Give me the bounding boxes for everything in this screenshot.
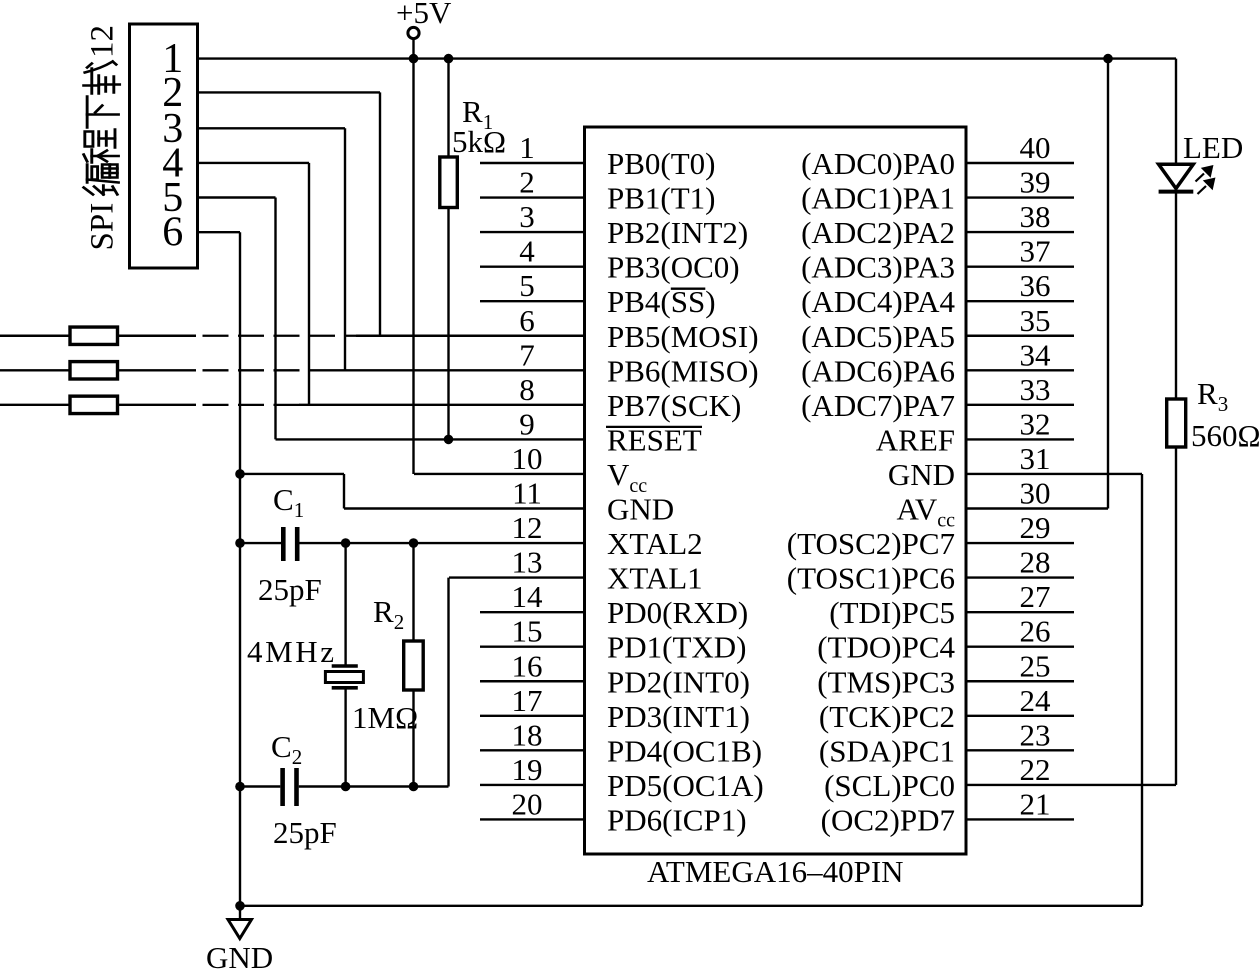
pin 30 AVcc (896, 476, 1108, 532)
pin 9 RESET (276, 406, 703, 457)
svg-text:LED: LED (1183, 130, 1243, 165)
pin 15 PD1(TXD) (480, 614, 747, 665)
svg-text:560Ω: 560Ω (1191, 418, 1260, 453)
junction C2 row / R2 (409, 782, 419, 792)
svg-text:(ADC2)PA2: (ADC2)PA2 (801, 215, 955, 250)
junction on rail at R1 (444, 54, 454, 64)
capacitor C2 (240, 768, 449, 806)
pin 34 (ADC6)PA6 (801, 337, 1074, 388)
svg-text:6: 6 (162, 210, 183, 256)
svg-text:PD3(INT1): PD3(INT1) (607, 699, 750, 734)
pin 17 PD3(INT1) (480, 683, 750, 734)
svg-text:(ADC5)PA5: (ADC5)PA5 (801, 319, 955, 354)
resistor R1 (440, 59, 458, 440)
pin 26 (TDO)PC4 (817, 614, 1074, 665)
svg-text:(TOSC1)PC6: (TOSC1)PC6 (787, 561, 955, 596)
svg-text:SPI: SPI (85, 203, 121, 251)
pin 31 GND (888, 441, 1142, 492)
pin 32 AREF (876, 406, 1074, 457)
wire GND pin11 jog to bus (240, 474, 344, 509)
label GND (206, 940, 273, 970)
svg-text:PB5(MOSI): PB5(MOSI) (607, 319, 759, 354)
pin 20 PD6(ICP1) (480, 786, 747, 837)
capacitor C1 (240, 527, 585, 561)
label C1 (273, 482, 304, 522)
pin 11 GND (344, 476, 674, 527)
svg-text:12: 12 (512, 510, 543, 545)
pin 12 XTAL2 (512, 510, 703, 561)
svg-text:PB0(T0): PB0(T0) (607, 146, 716, 181)
svg-text:(TOSC2)PC7: (TOSC2)PC7 (787, 526, 955, 561)
pin 7 PB6(MISO) (335, 337, 759, 388)
junction C1 row / gnd bus (235, 538, 245, 548)
svg-text:28: 28 (1020, 545, 1051, 580)
svg-text:18: 18 (512, 717, 543, 752)
resistor R3 (1167, 399, 1186, 785)
wire dashed signal 2 (196, 369, 337, 371)
pin 13 XTAL1 (449, 545, 703, 596)
svg-text:XTAL1: XTAL1 (607, 561, 703, 596)
wire AVcc pin30 riser to rail (1107, 59, 1109, 509)
pin 10 Vcc (414, 441, 647, 497)
svg-text:(ADC4)PA4: (ADC4)PA4 (801, 284, 955, 319)
svg-text:PB6(MISO): PB6(MISO) (607, 353, 759, 388)
svg-text:27: 27 (1020, 579, 1051, 614)
svg-text:39: 39 (1020, 165, 1051, 200)
svg-text:10: 10 (512, 441, 543, 476)
svg-text:ATMEGA16–40PIN: ATMEGA16–40PIN (647, 854, 904, 889)
svg-text:9: 9 (519, 406, 535, 441)
svg-text:PD6(ICP1): PD6(ICP1) (607, 802, 747, 837)
svg-text:(ADC1)PA1: (ADC1)PA1 (801, 181, 955, 216)
svg-text:1MΩ: 1MΩ (352, 700, 418, 735)
pin 36 (ADC4)PA4 (801, 268, 1074, 319)
svg-text:17: 17 (512, 683, 543, 718)
svg-text:GND: GND (888, 457, 955, 492)
wire SPI pin 2 to IC (198, 92, 381, 335)
svg-text:PB2(INT2): PB2(INT2) (607, 215, 748, 250)
svg-text:20: 20 (512, 786, 543, 821)
pin 39 (ADC1)PA1 (801, 165, 1074, 216)
LED D1 (1159, 59, 1194, 399)
svg-text:5: 5 (519, 268, 535, 303)
wire XTAL1 pin13 branch down (447, 578, 449, 787)
label 5kOhm (452, 124, 506, 159)
svg-text:PD4(OC1B): PD4(OC1B) (607, 733, 762, 768)
svg-text:(ADC3)PA3: (ADC3)PA3 (801, 250, 955, 285)
label 560Ohm (1191, 418, 1260, 453)
wire dashed signal 1 (196, 335, 358, 337)
svg-text:25pF: 25pF (258, 572, 322, 607)
pin 23 (SDA)PC1 (819, 717, 1074, 768)
pin 33 (ADC7)PA7 (801, 372, 1074, 423)
svg-text:36: 36 (1020, 268, 1051, 303)
svg-text:(SDA)PC1: (SDA)PC1 (819, 733, 955, 768)
svg-text:40: 40 (1020, 130, 1051, 165)
connector J1 SPI programming header (130, 24, 198, 268)
pin 5 PB4(SS) (480, 268, 716, 319)
svg-text:12: 12 (85, 25, 121, 58)
LED emission arrows (1196, 167, 1215, 195)
svg-text:4MHz: 4MHz (247, 634, 337, 669)
svg-text:PB7(SCK): PB7(SCK) (607, 388, 741, 423)
pin 40 (ADC0)PA0 (801, 130, 1074, 181)
wire Vcc pin10 riser (412, 59, 414, 474)
junction on rail at Vcc drop (409, 54, 419, 64)
pin 8 PB7(SCK) (299, 372, 741, 423)
svg-text:38: 38 (1020, 199, 1051, 234)
svg-text:(SCL)PC0: (SCL)PC0 (824, 768, 955, 803)
svg-text:11: 11 (512, 476, 542, 511)
svg-text:4: 4 (519, 234, 535, 269)
svg-text:(ADC0)PA0: (ADC0)PA0 (801, 146, 955, 181)
svg-text:(TCK)PC2: (TCK)PC2 (819, 699, 955, 734)
pin 21 (OC2)PD7 (821, 786, 1074, 837)
svg-text:37: 37 (1020, 234, 1051, 269)
svg-text:1: 1 (519, 130, 535, 165)
svg-text:3: 3 (519, 199, 535, 234)
pin 29 (TOSC2)PC7 (787, 510, 1074, 561)
label C2 25pF (273, 815, 337, 850)
pin 18 PD4(OC1B) (480, 717, 762, 768)
svg-text:22: 22 (1020, 752, 1051, 787)
crystal Y1 4MHz (325, 543, 363, 786)
pin 22 (SCL)PC0 (824, 752, 1176, 803)
label C2 (271, 729, 302, 769)
pin 16 PD2(INT0) (480, 648, 750, 699)
svg-text:5kΩ: 5kΩ (452, 124, 506, 159)
svg-text:24: 24 (1020, 683, 1052, 718)
svg-text:PD0(RXD): PD0(RXD) (607, 595, 748, 630)
label R1 (462, 94, 493, 134)
pin 2 PB1(T1) (480, 165, 716, 216)
svg-text:15: 15 (512, 614, 543, 649)
svg-text:8: 8 (519, 372, 535, 407)
wire RESET net riser (SPI pin5 already drawn) junction with R1 (444, 435, 454, 445)
wire SPI pin 6 / GND bus (198, 232, 241, 906)
svg-text:14: 14 (512, 579, 544, 614)
svg-text:(ADC7)PA7: (ADC7)PA7 (801, 388, 955, 423)
svg-text:(TDO)PC4: (TDO)PC4 (817, 630, 955, 665)
svg-text:PD5(OC1A): PD5(OC1A) (607, 768, 764, 803)
pin 38 (ADC2)PA2 (801, 199, 1074, 250)
wire +5V rail (198, 57, 1177, 59)
svg-text:PB3(OC0): PB3(OC0) (607, 250, 740, 285)
svg-text:25pF: 25pF (273, 815, 337, 850)
IC U1 ATMEGA16 body (585, 127, 967, 854)
svg-text:+5V: +5V (396, 0, 452, 30)
svg-text:21: 21 (1020, 786, 1051, 821)
junction C2 row / gnd bus (235, 782, 245, 792)
wire SPI pin 4 to IC (198, 163, 310, 405)
svg-text:23: 23 (1020, 717, 1051, 752)
label 4MHz (247, 634, 337, 669)
svg-text:2: 2 (519, 165, 535, 200)
wire bottom GND bus (240, 905, 1142, 907)
junction GND bus / pin11 (235, 469, 245, 479)
svg-text:29: 29 (1020, 510, 1051, 545)
label C1 25pF (258, 572, 322, 607)
svg-text:PD1(TXD): PD1(TXD) (607, 630, 747, 665)
junction C1 row / R2 (409, 538, 419, 548)
pin 25 (TMS)PC3 (817, 648, 1074, 699)
svg-text:PD2(INT0): PD2(INT0) (607, 664, 750, 699)
pin 37 (ADC3)PA3 (801, 234, 1074, 285)
power +5V symbol (396, 0, 452, 59)
svg-text:32: 32 (1020, 406, 1051, 441)
junction gnd bus bottom (235, 901, 245, 911)
svg-text:XTAL2: XTAL2 (607, 526, 703, 561)
wire SPI pin 3 to IC (198, 128, 346, 370)
resistor R2 (404, 543, 424, 786)
svg-text:31: 31 (1020, 441, 1051, 476)
connector label: SPI 编程下载 12 (rotated) (84, 25, 121, 251)
svg-text:(TMS)PC3: (TMS)PC3 (817, 664, 955, 699)
pin 27 (TDI)PC5 (829, 579, 1074, 630)
wire GND pin31 drop to bottom bus (1141, 474, 1143, 906)
wire SPI pin 5 to IC (198, 198, 276, 440)
svg-text:GND: GND (607, 492, 674, 527)
svg-text:7: 7 (519, 337, 535, 372)
label LED (1183, 130, 1243, 165)
svg-text:33: 33 (1020, 372, 1051, 407)
resistor input R5 (unlabelled) (0, 362, 196, 379)
label R2 (373, 594, 404, 634)
junction on rail at AVcc drop (1103, 54, 1113, 64)
svg-text:(OC2)PD7: (OC2)PD7 (821, 802, 955, 837)
svg-text:AREF: AREF (876, 422, 955, 457)
pin 19 PD5(OC1A) (480, 752, 764, 803)
svg-text:30: 30 (1020, 476, 1051, 511)
pin 1 PB0(T0) (480, 130, 716, 181)
svg-text:34: 34 (1020, 337, 1052, 372)
svg-text:6: 6 (519, 303, 535, 338)
svg-text:19: 19 (512, 752, 543, 787)
pin 4 PB3(OC0) (480, 234, 740, 285)
svg-text:(ADC6)PA6: (ADC6)PA6 (801, 353, 955, 388)
pin 35 (ADC5)PA5 (801, 303, 1074, 354)
label R3 (1197, 376, 1228, 416)
resistor input R6 (unlabelled) (0, 396, 196, 413)
junction C1 row / crystal (341, 538, 351, 548)
pin 28 (TOSC1)PC6 (787, 545, 1074, 596)
junction C2 row / crystal (341, 782, 351, 792)
svg-text:13: 13 (512, 545, 543, 580)
pin 14 PD0(RXD) (480, 579, 748, 630)
svg-text:GND: GND (206, 940, 273, 970)
pin 6 PB5(MOSI) (356, 303, 759, 354)
pin 24 (TCK)PC2 (819, 683, 1074, 734)
svg-text:PB1(T1): PB1(T1) (607, 181, 716, 216)
svg-text:16: 16 (512, 648, 543, 683)
IC U1 name label (647, 854, 904, 889)
svg-text:26: 26 (1020, 614, 1051, 649)
wire dashed signal 3 (196, 404, 301, 406)
svg-text:25: 25 (1020, 648, 1051, 683)
svg-text:35: 35 (1020, 303, 1051, 338)
svg-text:(TDI)PC5: (TDI)PC5 (829, 595, 955, 630)
resistor input R4 (unlabelled) (0, 327, 196, 344)
pin 3 PB2(INT2) (480, 199, 748, 250)
label 1MOhm (352, 700, 418, 735)
ground symbol (228, 906, 252, 939)
